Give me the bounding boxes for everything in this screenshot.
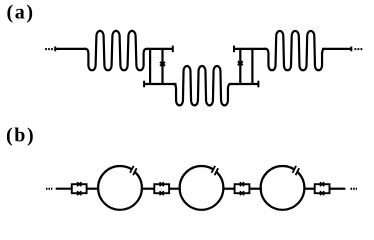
wire left lead xyxy=(55,48,86,50)
capacitor branch J2 (right vertical) xyxy=(251,48,253,85)
capacitor branch J1 (left vertical) xyxy=(149,48,151,85)
wire bottom plate lead J1 xyxy=(144,83,176,85)
node bottom plate tick J2 xyxy=(257,81,259,88)
junction bars on ring R2 xyxy=(212,166,219,175)
wire b3 xyxy=(169,188,181,190)
wire b6 xyxy=(304,188,315,190)
loop ring R3 xyxy=(261,166,305,210)
wire top plate lead J2 xyxy=(234,48,267,50)
inductor L2 (lower superinductor coil) xyxy=(173,66,230,105)
SQUID S2 (two-junction loop) xyxy=(154,182,169,195)
josephson junction cross J2 xyxy=(238,61,243,65)
node right ellipsis (a) xyxy=(355,48,363,50)
node left ellipsis (a) xyxy=(45,48,53,50)
loop ring R1 xyxy=(98,166,142,210)
node bottom plate tick J1 xyxy=(143,81,145,88)
josephson junction branch J1 (right vertical) xyxy=(161,48,163,85)
loop ring R2 xyxy=(180,166,224,210)
josephson junction branch J2 (left vertical) xyxy=(239,48,241,85)
wire right lead xyxy=(322,48,351,50)
node right ellipsis (b) xyxy=(350,188,357,190)
junction bars on ring R1 xyxy=(130,166,137,175)
wire b7 xyxy=(330,188,346,190)
wire b2 xyxy=(141,188,155,190)
node left terminal tick (a) xyxy=(54,47,56,52)
node top plate tick J2 xyxy=(233,46,235,53)
josephson junction cross J1 xyxy=(160,62,165,66)
wire b1 xyxy=(87,188,99,190)
wire b5 xyxy=(249,188,262,190)
inductor L3 (superinductor coil) xyxy=(264,31,325,70)
label (b) xyxy=(6,124,35,146)
wire top plate lead J1 xyxy=(147,48,173,50)
node left ellipsis (b) xyxy=(46,188,52,190)
svg-text:(b): (b) xyxy=(6,124,35,146)
svg-text:(a): (a) xyxy=(7,2,35,24)
node right terminal tick (a) xyxy=(350,47,352,52)
SQUID S3 (two-junction loop) xyxy=(235,182,250,195)
inductor L1 (superinductor coil) xyxy=(84,31,148,70)
wire b0 xyxy=(56,188,72,190)
wire bottom plate lead J2 xyxy=(229,83,259,85)
SQUID S1 (two-junction loop) xyxy=(72,182,87,195)
label (a) xyxy=(7,2,35,24)
junction bars on ring R3 xyxy=(293,166,300,175)
node top plate tick J1 xyxy=(172,46,174,53)
wire b4 xyxy=(223,188,236,190)
SQUID S4 (two-junction loop) xyxy=(315,182,330,195)
